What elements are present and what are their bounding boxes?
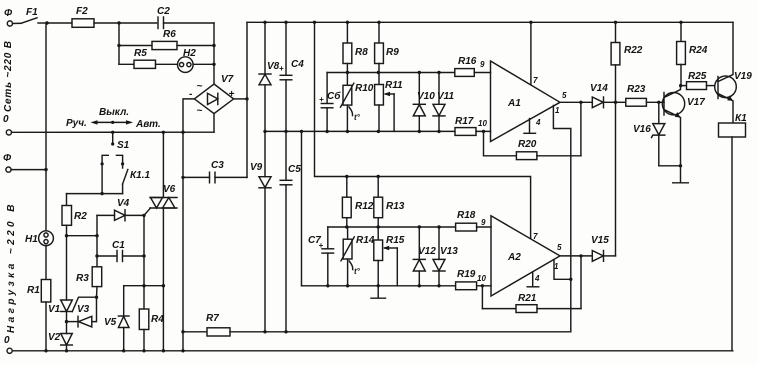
resistor R22 xyxy=(611,22,643,102)
lamp M1 xyxy=(25,231,53,246)
triac V6 xyxy=(144,132,177,352)
svg-text:t°: t° xyxy=(354,113,361,122)
label: mains 220V xyxy=(3,40,14,112)
wire: vertical branch x119 xyxy=(117,23,120,64)
op-amp A1 xyxy=(491,61,568,142)
wire: A1 pin7 xyxy=(530,22,532,85)
svg-text:V11: V11 xyxy=(437,91,454,102)
svg-text:R23: R23 xyxy=(627,84,646,95)
diode V13 xyxy=(433,227,458,286)
svg-text:V7: V7 xyxy=(221,74,234,85)
wire: A1 pin1 xyxy=(553,106,570,332)
wire: bridge plus output xyxy=(234,97,249,100)
label: load 220V xyxy=(6,201,17,333)
resistor R18 xyxy=(456,210,491,231)
svg-text:V19: V19 xyxy=(734,71,752,82)
wire: bridge bottom AC lead xyxy=(213,114,215,133)
resistor R4 xyxy=(139,215,164,352)
svg-text:~: ~ xyxy=(197,106,203,117)
wire: mid rail y72.5 xyxy=(327,71,455,74)
svg-text:V12: V12 xyxy=(418,246,436,257)
svg-text:Н1: Н1 xyxy=(25,234,38,245)
svg-text:0: 0 xyxy=(4,335,10,346)
relay coil K1 xyxy=(719,113,748,351)
wire: vertical x183 (minus bus down) xyxy=(181,131,184,351)
diode V3 xyxy=(67,296,99,327)
transistor V17 xyxy=(662,86,705,166)
svg-text:V15: V15 xyxy=(591,235,609,246)
svg-text:C7: C7 xyxy=(308,235,321,246)
zener V16 xyxy=(633,102,682,167)
diode V4 xyxy=(97,198,146,221)
wire: vertical x214 into bridge xyxy=(212,23,215,84)
wire: y193.6 link xyxy=(67,193,123,195)
diode V8 xyxy=(259,22,280,133)
svg-text:R6: R6 xyxy=(163,29,176,40)
wire: vertical x46 phase column xyxy=(44,23,47,231)
ground: R15 common bar xyxy=(371,297,386,299)
svg-text:4: 4 xyxy=(534,274,540,283)
svg-text:К1.1: К1.1 xyxy=(130,170,150,181)
resistor R2 xyxy=(62,194,87,238)
svg-text:~: ~ xyxy=(197,81,203,92)
switch S1 xyxy=(101,132,130,165)
svg-text:C3: C3 xyxy=(211,160,224,171)
svg-text:V1: V1 xyxy=(48,304,61,315)
svg-text:R12: R12 xyxy=(355,201,374,212)
svg-text:R24: R24 xyxy=(689,45,708,56)
svg-text:R2: R2 xyxy=(74,211,87,222)
svg-text:R3: R3 xyxy=(76,273,89,284)
wire: A2 pin1 xyxy=(554,260,573,281)
svg-text:Сеть ~220 В: Сеть ~220 В xyxy=(3,40,14,112)
svg-text:R13: R13 xyxy=(386,201,405,212)
svg-text:R22: R22 xyxy=(624,45,643,56)
diode V5 xyxy=(104,286,129,353)
svg-text:Авт.: Авт. xyxy=(135,119,161,130)
lamp H2 xyxy=(178,48,215,72)
svg-text:V10: V10 xyxy=(417,91,435,102)
diode V12 xyxy=(413,227,436,286)
terminal: mains neutral input xyxy=(3,114,12,135)
svg-text:A2: A2 xyxy=(507,252,521,263)
svg-text:R25: R25 xyxy=(688,71,707,82)
svg-text:V13: V13 xyxy=(440,246,458,257)
svg-text:10: 10 xyxy=(477,274,486,283)
svg-text:C1: C1 xyxy=(112,240,125,251)
wire: V5 R4 top link xyxy=(124,284,164,287)
svg-text:C5: C5 xyxy=(288,164,301,175)
wire: vertical x247 (plus rail riser) xyxy=(246,22,248,177)
thyristor V2 xyxy=(48,312,72,353)
svg-text:5: 5 xyxy=(557,243,562,252)
A1 pin4 common xyxy=(524,119,536,134)
op-amp A2 xyxy=(491,216,562,296)
resistor R13 xyxy=(374,177,405,228)
potentiometer R15 xyxy=(374,227,405,298)
resistor R17 xyxy=(455,116,491,135)
wire: vertical x97 trigger node xyxy=(95,215,98,266)
capacitor C2 xyxy=(157,6,214,29)
thyristor V1 xyxy=(48,236,97,315)
svg-text:V9: V9 xyxy=(250,162,263,173)
svg-text:C2: C2 xyxy=(157,6,170,17)
svg-text:R15: R15 xyxy=(386,235,405,246)
svg-text:t°: t° xyxy=(354,267,361,276)
svg-text:V17: V17 xyxy=(687,97,705,108)
svg-text:R18: R18 xyxy=(457,210,476,221)
wire: A2 upper rail y227 xyxy=(328,225,456,228)
capacitor C1 xyxy=(97,240,146,262)
resistor R16 xyxy=(455,56,491,76)
resistor R24 xyxy=(677,22,708,87)
resistor R1 xyxy=(27,246,51,353)
svg-text:5: 5 xyxy=(562,91,567,100)
wire: F2 to C2 xyxy=(94,21,157,24)
svg-text:R17: R17 xyxy=(455,116,474,127)
wire: neutral bus y132 xyxy=(12,131,215,134)
svg-text:R4: R4 xyxy=(151,314,164,325)
svg-text:R11: R11 xyxy=(385,80,403,91)
transistor V19 xyxy=(715,22,753,123)
relay contact K1.1 xyxy=(123,164,151,194)
wire: vertical x301 xyxy=(301,131,303,285)
svg-text:4: 4 xyxy=(535,118,541,127)
svg-text:R8: R8 xyxy=(355,47,368,58)
svg-text:Нагрузка ~220 В: Нагрузка ~220 В xyxy=(6,201,17,333)
resistor R19 xyxy=(456,269,491,290)
wire: top supply rail xyxy=(247,21,733,24)
svg-text:V5: V5 xyxy=(104,317,117,328)
diode V15 xyxy=(591,235,616,261)
wire: S1 left contact down xyxy=(100,164,103,195)
svg-text:0: 0 xyxy=(3,114,9,125)
resistor R7 xyxy=(183,313,571,336)
svg-text:H2: H2 xyxy=(183,48,196,59)
svg-text:R10: R10 xyxy=(355,83,374,94)
A2 pin4 common xyxy=(527,272,539,287)
terminal: load neutral xyxy=(4,335,12,353)
svg-text:К1: К1 xyxy=(735,113,747,124)
wire: A1 output xyxy=(560,101,592,156)
wire: bridge minus corner L xyxy=(183,99,194,132)
svg-text:1: 1 xyxy=(555,106,560,115)
wire: dc minus rail y131 xyxy=(265,130,455,133)
resistor R5 xyxy=(119,48,178,68)
svg-text:V4: V4 xyxy=(117,198,130,209)
diode V9 xyxy=(250,131,271,331)
wire: vertical x314 and feed to A2 pin7 xyxy=(315,22,531,238)
wire: A2 lower rail y285.8 xyxy=(302,284,456,287)
resistor R6 xyxy=(119,29,214,50)
terminal: mains phase input xyxy=(4,8,13,26)
svg-text:+: + xyxy=(279,64,284,73)
resistor R12 xyxy=(342,177,373,228)
switch F1 xyxy=(13,7,48,24)
thermistor R14 xyxy=(341,227,375,287)
svg-text:R7: R7 xyxy=(206,313,219,324)
svg-text:V2: V2 xyxy=(48,332,61,343)
svg-text:C4: C4 xyxy=(291,59,304,70)
capacitor C4 xyxy=(279,22,304,133)
resistor R8 xyxy=(343,22,368,72)
svg-text:7: 7 xyxy=(533,232,538,241)
thermistor R10 xyxy=(341,73,374,132)
svg-text:R21: R21 xyxy=(518,293,537,304)
svg-text:F1: F1 xyxy=(26,7,38,18)
svg-text:9: 9 xyxy=(481,218,486,227)
svg-text:R19: R19 xyxy=(457,269,476,280)
svg-text:R9: R9 xyxy=(386,47,399,58)
svg-text:1: 1 xyxy=(554,262,559,271)
svg-text:V8: V8 xyxy=(267,61,280,72)
potentiometer R11 xyxy=(375,73,403,132)
svg-text:+: + xyxy=(319,95,324,104)
svg-text:Cб: Cб xyxy=(327,90,341,102)
resistor R9 xyxy=(375,22,400,72)
capacitor C5 xyxy=(280,131,301,331)
svg-text:Руч.: Руч. xyxy=(66,118,87,129)
wire: V14 V15 link x615.5 xyxy=(615,102,617,256)
ground: V16 V17 emitter xyxy=(673,166,689,183)
wire: R2 to trigger node xyxy=(67,235,98,237)
svg-text:V16: V16 xyxy=(633,124,651,135)
svg-text:R5: R5 xyxy=(134,48,147,59)
svg-text:V6: V6 xyxy=(163,184,176,195)
wire: phase to F2 xyxy=(45,21,72,24)
svg-text:Выкл.: Выкл. xyxy=(99,107,129,118)
resistor R25 xyxy=(681,71,714,90)
capacitor C6 xyxy=(319,73,341,132)
wire: bottom rail xyxy=(12,349,733,352)
diode V10 xyxy=(413,73,435,132)
svg-text:V3: V3 xyxy=(77,304,90,315)
diode V11 xyxy=(433,73,454,132)
svg-text:R16: R16 xyxy=(458,56,477,67)
svg-text:S1: S1 xyxy=(117,140,130,151)
resistor R21 xyxy=(482,286,581,313)
wire: A2 output xyxy=(560,254,592,308)
resistor R3 xyxy=(76,267,102,297)
svg-text:Φ: Φ xyxy=(4,8,13,19)
svg-text:R1: R1 xyxy=(27,285,40,296)
capacitor C3 xyxy=(181,160,247,183)
svg-text:R14: R14 xyxy=(356,235,375,246)
svg-text:R20: R20 xyxy=(518,139,537,150)
mode labels xyxy=(66,107,161,130)
fuse F2 xyxy=(72,6,94,27)
bridge rectifier V7 xyxy=(189,74,235,117)
svg-text:Φ: Φ xyxy=(3,153,12,164)
terminal: load phase xyxy=(3,153,46,172)
resistor R20 xyxy=(484,131,581,159)
svg-text:F2: F2 xyxy=(76,6,88,17)
resistor R23 xyxy=(616,84,665,106)
svg-text:7: 7 xyxy=(533,76,538,85)
svg-text:V14: V14 xyxy=(590,83,608,94)
svg-text:A1: A1 xyxy=(507,98,521,109)
diode V14 xyxy=(590,83,617,108)
svg-text:9: 9 xyxy=(480,60,485,69)
svg-text:10: 10 xyxy=(478,119,487,128)
capacitor C7 xyxy=(308,227,334,287)
